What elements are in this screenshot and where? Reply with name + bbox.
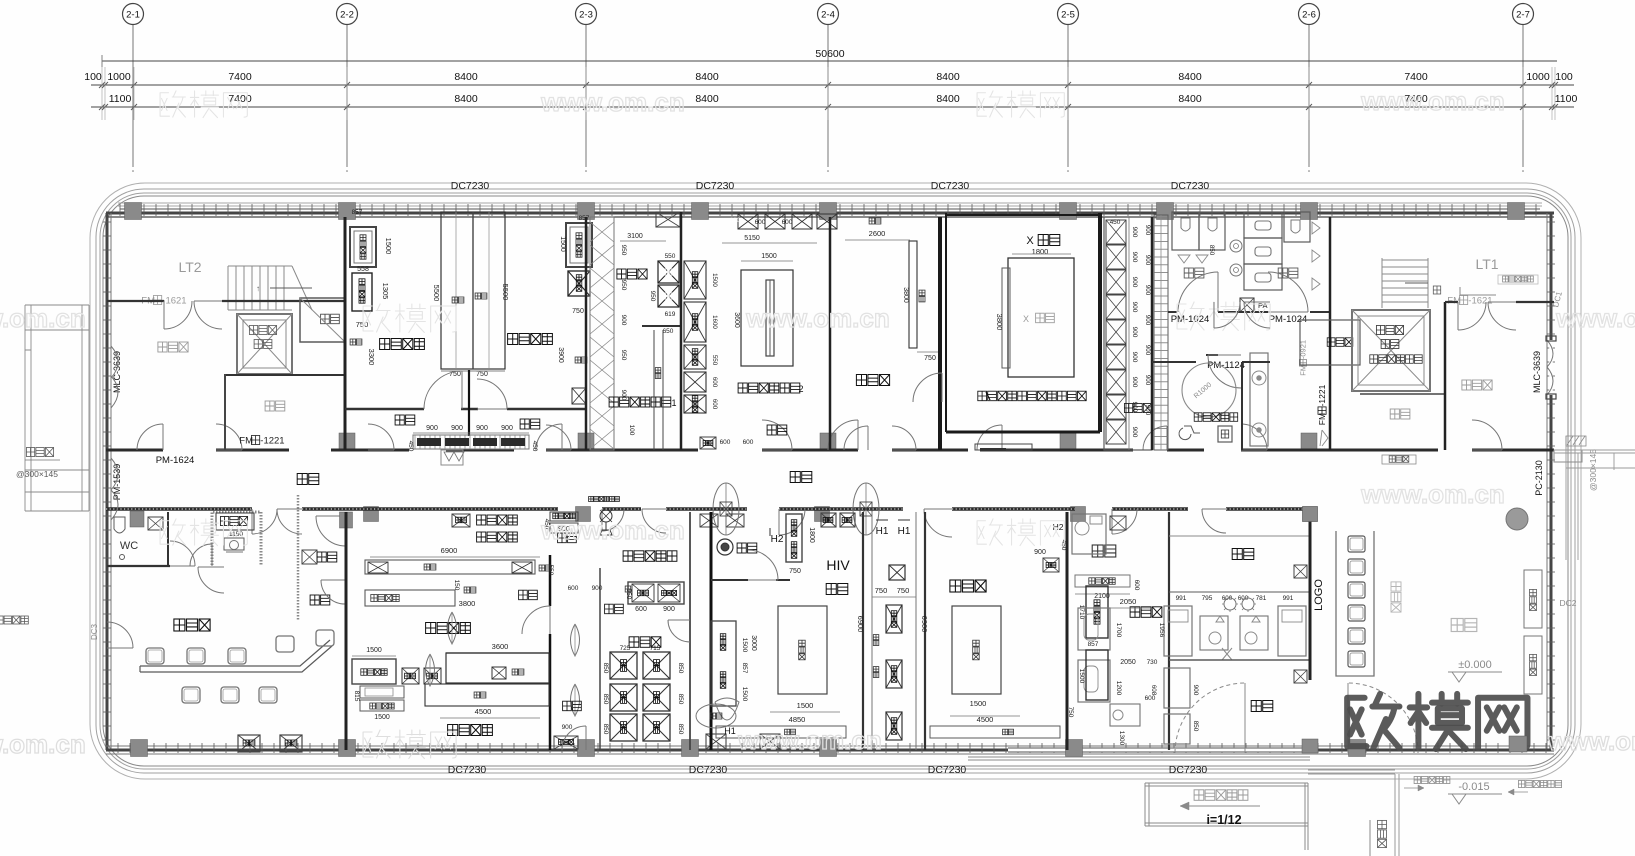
svg-text:608: 608 (1150, 685, 1157, 696)
desks with chairs center (1200, 616, 1228, 650)
svg-text:X: X (1023, 314, 1029, 324)
svg-text:2-2: 2-2 (340, 10, 354, 21)
cleaning report area label (623, 551, 677, 562)
svg-text:600: 600 (730, 217, 741, 224)
svg-text:DC7230: DC7230 (931, 180, 970, 192)
svg-text:857: 857 (741, 663, 748, 674)
sliding door corridor xray (975, 444, 1032, 450)
svg-text:1000: 1000 (107, 71, 131, 83)
label ruo-dian (1390, 409, 1410, 419)
svg-text:1500: 1500 (761, 253, 777, 260)
svg-text:5150: 5150 (744, 235, 760, 242)
lobby labels grey (1391, 582, 1401, 612)
svg-text:www.om.cn: www.om.cn (1547, 726, 1635, 756)
center table parasite lab2 (741, 270, 793, 366)
right equipment molecular (566, 223, 592, 267)
svg-text:2-1: 2-1 (126, 10, 140, 21)
air shower ellipses corridor HIV (713, 483, 739, 535)
buffer small left (310, 595, 330, 605)
svg-text:1800: 1800 (808, 527, 815, 543)
stair LT1 (1382, 258, 1428, 308)
svg-text:600: 600 (1133, 580, 1140, 591)
svg-text:750: 750 (476, 371, 488, 378)
svg-text:LOGO: LOGO (1313, 579, 1325, 611)
tiny grey label door right (1518, 781, 1561, 788)
wc fixtures (114, 517, 125, 533)
svg-text:900: 900 (1131, 227, 1138, 238)
bench top serum (628, 582, 684, 604)
svg-text:8400: 8400 (1178, 93, 1202, 105)
svg-text:1500: 1500 (711, 273, 718, 287)
svg-text:6900: 6900 (441, 546, 458, 555)
svg-text:2050: 2050 (1120, 597, 1137, 606)
svg-text:@300×145: @300×145 (1588, 449, 1598, 491)
womens toilet (1278, 268, 1298, 278)
svg-text:8400: 8400 (1178, 71, 1202, 83)
svg-text:-1621: -1621 (1468, 295, 1492, 306)
left equipment boxes (350, 227, 376, 267)
svg-text:2-5: 2-5 (1061, 10, 1075, 21)
top bench row (738, 214, 758, 229)
svg-text:5500: 5500 (432, 285, 441, 302)
mullion ticks left/right (103, 222, 1555, 740)
buffer rooms bacteria lab (395, 415, 415, 425)
overall dimension 50600 (102, 60, 1557, 62)
right exterior walk structure (1554, 436, 1635, 560)
svg-text:DC7230: DC7230 (1171, 180, 1210, 192)
label FM yi-1621 left (141, 295, 186, 306)
boxes on south corridor wall pcr (452, 514, 470, 527)
equipment in central band (886, 605, 902, 633)
svg-text:1500: 1500 (741, 638, 748, 653)
svg-text:PM-1024: PM-1024 (1171, 314, 1210, 325)
elevator DT2 (1352, 310, 1430, 391)
toilet partition wall y=312 (1168, 311, 1177, 313)
stool circles internal med (1224, 598, 1236, 610)
svg-text:600: 600 (1145, 695, 1156, 702)
svg-text:650: 650 (663, 328, 674, 335)
svg-text:900: 900 (1131, 302, 1138, 313)
svg-text:600: 600 (755, 219, 766, 226)
svg-text:550: 550 (547, 565, 554, 576)
svg-text:PM-1624: PM-1624 (156, 455, 195, 466)
central service band (862, 512, 864, 750)
svg-text:4500: 4500 (475, 707, 492, 716)
svg-text:7400: 7400 (228, 93, 252, 105)
svg-text:900: 900 (501, 425, 513, 432)
sampling area (174, 619, 210, 631)
svg-text:i=1/12: i=1/12 (1206, 813, 1241, 827)
grid axis bubbles 2-1..2-7 (132, 25, 134, 167)
svg-text:815: 815 (353, 691, 360, 702)
grey circle right side (1506, 508, 1528, 530)
columns on exterior walls (125, 203, 142, 220)
center wall stub bacteria/molecular (468, 370, 470, 436)
HIV bench left (786, 514, 802, 562)
svg-text:795: 795 (1202, 595, 1213, 602)
svg-text:900: 900 (1144, 285, 1151, 296)
svg-text:PC-2130: PC-2130 (1534, 460, 1544, 496)
room qiang-dian (power) (265, 401, 285, 411)
buffer bottom pcr (563, 701, 582, 711)
svg-text:3900: 3900 (557, 347, 564, 363)
nucleic acid amplification label (477, 515, 518, 525)
svg-text:550: 550 (711, 355, 718, 366)
label yangpinshi (617, 269, 647, 279)
svg-text:5500: 5500 (501, 284, 510, 301)
svg-text:1500: 1500 (559, 236, 566, 252)
svg-text:8400: 8400 (695, 93, 719, 105)
svg-text:900: 900 (1144, 375, 1151, 386)
svg-text:900: 900 (426, 425, 438, 432)
wheelchair + squat (1179, 426, 1200, 440)
building envelope outer rings (90, 183, 1581, 779)
main wall x=345 (344, 217, 347, 450)
svg-text:-1221: -1221 (260, 435, 284, 446)
svg-text:900: 900 (1131, 277, 1138, 288)
right wall small protrusions (1554, 450, 1582, 462)
svg-text:X: X (1026, 235, 1034, 247)
svg-text:www.om.cn: www.om.cn (1555, 303, 1635, 333)
svg-text:730: 730 (1147, 659, 1158, 666)
entrance glazing lighter (1008, 748, 1302, 752)
boxes on bottom wall pcr (706, 734, 726, 749)
pcr bottom bench (716, 726, 846, 738)
diamonds/centrifuge symbols (426, 654, 435, 686)
svg-text:1100: 1100 (109, 93, 132, 105)
wall x=830 area (grid 2-4) (829, 217, 832, 450)
svg-text:857: 857 (352, 209, 363, 216)
svg-text:781: 781 (1256, 595, 1267, 602)
buffer parasite (767, 425, 787, 435)
svg-text:950: 950 (649, 291, 656, 302)
pass ellipse HIV bottom (715, 698, 739, 720)
corridor walls (106, 449, 163, 452)
ladder hatch band toilets left (1154, 215, 1168, 450)
watermark row 4 (363, 732, 373, 757)
storage shaft band (1104, 217, 1152, 450)
duty room (1130, 607, 1162, 618)
svg-text:558: 558 (357, 266, 369, 273)
svg-text:900: 900 (620, 390, 627, 401)
svg-text:1100: 1100 (1555, 93, 1578, 105)
svg-text:600: 600 (635, 606, 647, 613)
svg-text:3600: 3600 (733, 312, 740, 328)
x-ray machine table (1008, 258, 1074, 377)
corridor door arcs (137, 424, 163, 450)
svg-text:1700: 1700 (1115, 623, 1122, 638)
HIV center table (778, 606, 827, 694)
svg-text:857: 857 (579, 215, 590, 222)
svg-text:1500: 1500 (384, 238, 393, 255)
wc top (1092, 545, 1116, 557)
dimension row 1 (91, 84, 1574, 86)
HIV bench bottom tall (711, 621, 736, 706)
svg-text:900: 900 (1144, 315, 1151, 326)
svg-text:1956: 1956 (1158, 623, 1165, 638)
svg-text:H1: H1 (898, 526, 911, 537)
svg-text:1000: 1000 (1526, 71, 1550, 83)
svg-text:950: 950 (620, 280, 627, 291)
svg-text:991: 991 (1283, 595, 1294, 602)
svg-text:750: 750 (924, 355, 936, 362)
svg-text:3000: 3000 (750, 635, 757, 651)
svg-text:750: 750 (572, 308, 584, 315)
svg-text:H2: H2 (771, 534, 784, 545)
svg-text:715: 715 (650, 645, 661, 652)
pcr top room boxes (512, 562, 532, 573)
down3steps bottom right (1378, 820, 1387, 847)
svg-text:2: 2 (798, 384, 803, 394)
svg-text:DC7230: DC7230 (448, 764, 487, 776)
svg-text:6900: 6900 (856, 616, 865, 633)
svg-text:850: 850 (1208, 245, 1215, 256)
wall x=1310 (1309, 512, 1312, 680)
svg-text:3100: 3100 (627, 233, 643, 240)
svg-text:100: 100 (1555, 71, 1573, 83)
svg-text:1500: 1500 (741, 687, 748, 702)
svg-text:50600: 50600 (815, 48, 844, 60)
buffer near pcr (558, 533, 577, 543)
svg-text:600: 600 (720, 439, 731, 446)
svg-text:DC7230: DC7230 (928, 764, 967, 776)
WC room bottom-left (107, 565, 170, 567)
svg-text:2-4: 2-4 (821, 10, 835, 21)
svg-text:750: 750 (789, 568, 801, 575)
wall boxes right of sterilize (821, 513, 836, 527)
svg-text:725: 725 (620, 645, 631, 652)
svg-text:±0.000: ±0.000 (1458, 659, 1492, 671)
xray door on left wall (913, 373, 942, 402)
svg-text:900: 900 (1144, 225, 1151, 236)
svg-text:3800: 3800 (995, 314, 1004, 331)
lobby entrance doors dashed (1175, 683, 1245, 753)
parasite lab2 left bench column (684, 261, 706, 299)
svg-text:900: 900 (562, 724, 573, 731)
wall x=346 bottom band (345, 512, 348, 750)
registration room (212, 512, 261, 565)
svg-text:-0.015: -0.015 (1458, 781, 1489, 793)
beds duty room (1078, 608, 1110, 650)
right lower canopy lines (1308, 770, 1399, 856)
svg-text:2050: 2050 (1120, 659, 1136, 666)
svg-text:850: 850 (677, 663, 684, 674)
svg-text:1600: 1600 (711, 315, 718, 329)
svg-text:750: 750 (897, 586, 910, 595)
svg-text:850: 850 (602, 663, 609, 674)
watermark row 2 (363, 306, 373, 331)
svg-text:MLC-3639: MLC-3639 (1532, 351, 1542, 393)
svg-text:991: 991 (1176, 595, 1187, 602)
svg-text:750: 750 (875, 586, 888, 595)
svg-text:1500: 1500 (374, 714, 390, 721)
center sink column (1244, 212, 1282, 238)
svg-text:LT2: LT2 (178, 259, 201, 275)
cabinet lower (1086, 650, 1108, 700)
svg-text:-1621: -1621 (162, 295, 186, 306)
svg-text:900: 900 (1131, 427, 1138, 438)
fridges 6 units (610, 652, 637, 679)
door into sampling (107, 622, 133, 648)
buffer row wall y=409 (345, 408, 424, 411)
transfer hatch band x 590-614 (590, 217, 614, 450)
svg-text:900: 900 (620, 315, 627, 326)
svg-text:DC7230: DC7230 (1169, 764, 1208, 776)
label paifengkou left edge (0, 616, 28, 624)
svg-text:7400: 7400 (228, 71, 252, 83)
svg-text:1500: 1500 (1078, 669, 1085, 684)
parasite lab 1 boxes on corridor (700, 437, 716, 449)
fire shutter label small (1498, 275, 1538, 284)
radiation warning text (986, 392, 990, 400)
label parasite lab 1 (609, 397, 671, 407)
svg-text:600: 600 (711, 377, 718, 388)
label bacteria identification (380, 339, 425, 350)
wall x=550 pcr suite (549, 555, 552, 606)
svg-text:8400: 8400 (454, 71, 478, 83)
svg-text:900: 900 (476, 425, 488, 432)
washbasin row (1075, 575, 1130, 587)
main exterior wall (118, 202, 1542, 204)
svg-text:600: 600 (568, 585, 579, 592)
wall x=586 grid2-3 (585, 217, 588, 450)
svg-text:950: 950 (620, 350, 627, 361)
svg-text:850: 850 (602, 694, 609, 705)
svg-text:3800: 3800 (902, 287, 909, 303)
svg-text:850: 850 (1192, 721, 1199, 732)
svg-text:3300: 3300 (367, 349, 376, 366)
svg-text:100: 100 (84, 71, 102, 83)
svg-text:www.om.cn: www.om.cn (540, 515, 685, 545)
air supply unit pcr (589, 497, 620, 502)
reagent prep label (448, 725, 493, 736)
svg-text:4850: 4850 (789, 715, 806, 724)
svg-text:DC7230: DC7230 (451, 180, 490, 192)
chairs row up-right (276, 636, 294, 652)
svg-text:550: 550 (665, 253, 676, 260)
internal medicine room (1232, 549, 1254, 560)
svg-text:619: 619 (665, 311, 676, 318)
columns at corridor walls (339, 433, 355, 449)
svg-text:H1: H1 (876, 526, 889, 537)
x-ray room thick walls (945, 213, 947, 432)
center bench bacteria room (441, 212, 505, 369)
svg-text:850: 850 (677, 694, 684, 705)
svg-text:DC3: DC3 (90, 623, 99, 640)
yi-geng room (297, 495, 300, 620)
svg-text:900: 900 (1131, 377, 1138, 388)
sample prep label (426, 623, 471, 634)
svg-text:DC2: DC2 (1559, 598, 1576, 608)
svg-text:900: 900 (663, 606, 675, 613)
svg-text:1500: 1500 (970, 699, 987, 708)
svg-text:850: 850 (602, 724, 609, 735)
sterilize room (717, 539, 733, 555)
wall x=690 serum (689, 512, 691, 750)
svg-text:DC7230: DC7230 (689, 764, 728, 776)
svg-text:1300: 1300 (1118, 731, 1125, 746)
watermark row 3 (160, 521, 169, 544)
svg-text:2-7: 2-7 (1516, 10, 1530, 21)
svg-text:1200: 1200 (1115, 681, 1122, 696)
mullion ticks bottom (118, 743, 1546, 753)
control room bench (909, 241, 917, 348)
svg-text:FM: FM (1299, 365, 1308, 376)
svg-text:900: 900 (592, 585, 603, 592)
beds internal (1164, 606, 1192, 656)
svg-text:900: 900 (1131, 327, 1138, 338)
serum center table (952, 606, 1001, 694)
svg-text:www.om.cn: www.om.cn (540, 87, 685, 117)
svg-text:450: 450 (1110, 219, 1121, 226)
mens toilet (1184, 268, 1204, 278)
air shaft feng-jing (300, 298, 345, 342)
svg-text:850: 850 (677, 724, 684, 735)
serum lab (950, 580, 986, 592)
wall x=1152 (1151, 217, 1154, 450)
boxes on bottom wall (238, 735, 260, 752)
thick black wall x=711 (710, 512, 713, 750)
svg-text:2600: 2600 (869, 229, 886, 238)
elevator DT1 (237, 314, 292, 374)
label molecular typing (508, 334, 553, 345)
svg-text:6900: 6900 (920, 616, 929, 633)
room LT2 stair block (228, 266, 312, 310)
dimension row 2 (91, 106, 1574, 108)
label elevator hall left (158, 342, 188, 352)
entrance ramp structure bottom (968, 757, 1310, 850)
accessible ramp label (1194, 790, 1248, 801)
wall x=1330 (1329, 217, 1332, 450)
chairs row1 (146, 648, 164, 664)
svg-text:@300×145: @300×145 (16, 469, 58, 479)
svg-text:www.om.cn: www.om.cn (737, 725, 882, 755)
svg-text:900: 900 (1034, 549, 1046, 556)
sterilize room wall (711, 579, 748, 581)
svg-text:2-3: 2-3 (579, 10, 593, 21)
electronic screen label corridor right (1382, 455, 1416, 464)
left protruding structure (25, 305, 89, 511)
svg-text:900: 900 (1144, 345, 1151, 356)
svg-text:www.om.cn: www.om.cn (1360, 86, 1505, 116)
svg-text:WC: WC (120, 540, 138, 552)
stalls mens (1172, 212, 1199, 250)
svg-text:H1: H1 (724, 726, 736, 736)
svg-text:600: 600 (743, 439, 754, 446)
svg-text:FM: FM (1317, 413, 1327, 425)
svg-text:3800: 3800 (459, 599, 476, 608)
benches pcr top room (365, 560, 535, 574)
sterilizer cabinet (1086, 586, 1108, 638)
svg-text:1800: 1800 (1032, 247, 1049, 256)
svg-text:450: 450 (407, 441, 414, 452)
vertical door labels right (1299, 340, 1308, 376)
serum bank room (599, 568, 601, 750)
svg-text:100: 100 (628, 425, 635, 436)
svg-text:www.om.cn: www.om.cn (0, 729, 86, 759)
reception desk (1336, 531, 1374, 676)
curtain wall mullion ticks top (120, 204, 1536, 216)
svg-text:www.om.cn: www.om.cn (1360, 479, 1505, 509)
buffer strip labels (519, 590, 538, 600)
serum bank label (629, 637, 661, 648)
svg-text:900: 900 (1131, 252, 1138, 263)
svg-text:1500: 1500 (366, 647, 382, 654)
label FM bing-1221 (239, 435, 284, 446)
svg-text:2-6: 2-6 (1302, 10, 1316, 21)
faucet symbol (625, 586, 631, 592)
wall elevator hall (107, 300, 164, 302)
